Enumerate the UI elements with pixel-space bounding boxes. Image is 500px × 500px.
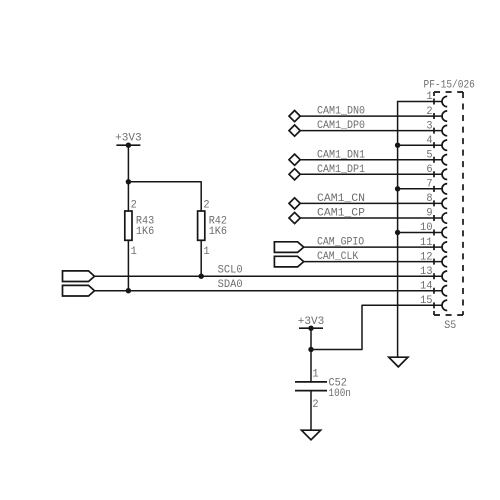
wire net CAM1_DP1 to pin 6 xyxy=(300,173,442,175)
terminal diamond CAM1_CP xyxy=(289,212,300,223)
ground symbol (bus) xyxy=(389,357,408,367)
connector pin 7 contact xyxy=(442,184,447,194)
connector pin 1 contact xyxy=(442,96,447,106)
svg-text:PF-15/026: PF-15/026 xyxy=(424,80,475,92)
svg-text:CAM1_DP0: CAM1_DP0 xyxy=(317,120,365,132)
svg-text:1K6: 1K6 xyxy=(136,226,154,238)
wire pin1 to ground bus xyxy=(398,101,442,103)
terminal diamond CAM1_DN1 xyxy=(289,154,300,165)
junction pin4/bus xyxy=(395,143,400,148)
connector pin 13 contact xyxy=(442,271,447,281)
power symbol +3V3 (top) xyxy=(116,144,140,146)
junction R43/SDA0 xyxy=(126,288,131,293)
power symbol +3V3 (bottom) xyxy=(299,327,323,329)
svg-text:CAM1_DP1: CAM1_DP1 xyxy=(317,164,365,176)
svg-text:1: 1 xyxy=(131,246,138,258)
svg-text:1K6: 1K6 xyxy=(209,226,227,238)
terminal flag CAM_GPIO xyxy=(274,242,303,253)
svg-text:CAM1_CN: CAM1_CN xyxy=(317,193,365,205)
connector pin 15 contact xyxy=(442,300,447,310)
wire R42 bottom to SCL0 xyxy=(200,240,202,276)
svg-text:S5: S5 xyxy=(444,320,456,332)
wire net CAM1_CN to pin 8 xyxy=(300,202,442,204)
wire net SCL0 (pin 13) xyxy=(95,275,443,277)
wire pin4 stub xyxy=(398,144,442,146)
connector pin 6 contact xyxy=(442,169,447,179)
wire pin10 stub xyxy=(398,232,442,234)
svg-text:SCL0: SCL0 xyxy=(218,265,243,277)
svg-text:CAM_CLK: CAM_CLK xyxy=(317,251,359,263)
connector pin 8 contact xyxy=(442,198,447,208)
junction R43/R42 split xyxy=(126,179,131,184)
svg-text:SDA0: SDA0 xyxy=(218,279,243,291)
resistor R43 body xyxy=(125,211,132,240)
connector pin 12 contact xyxy=(442,256,447,266)
wire junction to R43 top xyxy=(127,182,129,211)
junction R42/SCL0 xyxy=(199,274,204,279)
svg-text:CAM1_DN1: CAM1_DN1 xyxy=(317,149,365,161)
junction pin7/bus xyxy=(395,186,400,191)
terminal flag SDA0 xyxy=(63,285,95,296)
connector pin 14 contact xyxy=(442,286,447,296)
terminal diamond CAM1_DP0 xyxy=(289,125,300,136)
wire net SDA0 (pin 14) xyxy=(95,290,443,292)
terminal flag SCL0 xyxy=(63,271,95,282)
terminal diamond CAM1_DN0 xyxy=(289,111,300,122)
svg-text:1: 1 xyxy=(203,246,210,258)
wire junction to R42 top xyxy=(128,182,201,211)
connector pin 9 contact xyxy=(442,213,447,223)
wire C52 pin 2 to ground xyxy=(310,391,312,430)
svg-text:2: 2 xyxy=(131,200,137,212)
svg-text:+3V3: +3V3 xyxy=(115,133,142,145)
terminal flag CAM_CLK xyxy=(274,256,303,267)
wire +3V3 to C52 junction xyxy=(310,328,312,349)
wire net CAM_CLK to pin 12 xyxy=(304,261,442,263)
connector pin 5 contact xyxy=(442,155,447,165)
svg-text:2: 2 xyxy=(203,200,209,212)
svg-text:+3V3: +3V3 xyxy=(298,316,325,328)
wire pin7 stub xyxy=(398,188,442,190)
wire net CAM1_DN1 to pin 5 xyxy=(300,159,442,161)
svg-text:1: 1 xyxy=(312,368,319,380)
wire junction to C52 pin 1 xyxy=(310,350,312,382)
wire net CAM_GPIO to pin 11 xyxy=(304,246,442,248)
terminal diamond CAM1_CN xyxy=(289,198,300,209)
junction +3V3/pin15/C52 xyxy=(308,347,313,352)
wire +3V3 down to junction xyxy=(127,145,129,182)
svg-text:CAM1_CP: CAM1_CP xyxy=(317,208,365,220)
svg-text:CAM_GPIO: CAM_GPIO xyxy=(317,237,365,249)
connector pin 2 contact xyxy=(442,111,447,121)
resistor R42 body xyxy=(198,211,205,240)
junction pin10/bus xyxy=(395,230,400,235)
svg-text:100n: 100n xyxy=(329,388,351,400)
ground symbol (C52) xyxy=(302,430,321,440)
svg-text:2: 2 xyxy=(312,399,318,411)
connector S5 dashed body xyxy=(434,92,463,315)
capacitor C52 xyxy=(295,382,327,391)
wire R43 bottom to SDA0 xyxy=(127,240,129,290)
connector pin 3 contact xyxy=(442,125,447,135)
connector pin 4 contact xyxy=(442,140,447,150)
wire net CAM1_DP0 to pin 3 xyxy=(300,130,442,132)
connector pin 11 contact xyxy=(442,242,447,252)
svg-text:CAM1_DN0: CAM1_DN0 xyxy=(317,106,365,118)
wire pin15 to +3V3 xyxy=(311,305,442,349)
wire net CAM1_CP to pin 9 xyxy=(300,217,442,219)
terminal diamond CAM1_DP1 xyxy=(289,169,300,180)
wire net CAM1_DN0 to pin 2 xyxy=(300,115,442,117)
wire ground bus vertical xyxy=(397,102,399,358)
connector pin 10 contact xyxy=(442,227,447,237)
